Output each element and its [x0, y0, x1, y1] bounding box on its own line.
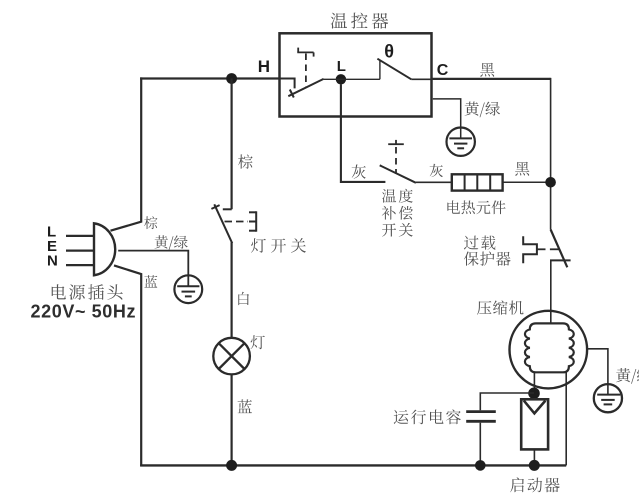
label 黄/绿 yellow-green (plug) [155, 235, 188, 250]
switch S1 lamp switch arm [211, 204, 232, 243]
label 220V~ 50Hz rating [31, 302, 137, 322]
resistor RH heating element body [452, 174, 503, 190]
overload F1 switch arm [551, 230, 568, 268]
compressor M1 housing circle [510, 311, 588, 389]
switch S3 theta switch arm [377, 59, 411, 80]
wire door switch to lamp [231, 242, 233, 338]
wire heater to right bus [503, 181, 551, 183]
label 过载 overload [464, 236, 496, 250]
wire plug earth (yellow/green) [118, 251, 188, 286]
node L terminal junction dot [336, 74, 346, 84]
label 温度 temperature [382, 189, 413, 203]
node junction bottom / lamp [226, 460, 237, 471]
label 温控器 thermostat [331, 13, 389, 29]
thermostat actuator dashed link [305, 54, 307, 88]
svg-text:220V~ 50Hz: 220V~ 50Hz [31, 302, 137, 322]
node junction right bus / heater [545, 177, 556, 188]
wire L terminal down to compensation switch [341, 84, 386, 182]
overload F1 link dashes [537, 248, 559, 250]
label 黑 black (heater) [515, 162, 529, 176]
overload F1 heater bracket [523, 236, 537, 263]
thermostat U1 enclosure box [280, 33, 432, 116]
wire compensation switch to heater [416, 181, 452, 183]
wire lamp to bottom bus [231, 374, 233, 465]
label 保护器 protector [464, 251, 511, 265]
wire compressor body to earth [587, 349, 608, 395]
label 黑 black (top) [480, 63, 494, 77]
capacitor CR run capacitor plates [466, 412, 496, 422]
ground G1 protective earth at plug [174, 275, 202, 303]
label 灯开关 lamp switch [251, 238, 306, 253]
label 蓝 blue (plug) [144, 275, 157, 287]
label 棕 brown (lamp branch) [238, 154, 253, 168]
node junction start terminal [528, 388, 540, 400]
ground G3 protective earth at compressor [594, 384, 622, 412]
label N pin [47, 253, 58, 270]
wire starter to bottom bus [533, 449, 535, 465]
switch S1 lamp door switch fixed contact [223, 208, 232, 210]
label H terminal [258, 57, 270, 76]
wire bottom neutral bus [140, 464, 566, 466]
wire blue from plug to bottom bus [114, 265, 141, 466]
label theta symbol [384, 42, 394, 62]
ground G2 protective earth at thermostat [447, 128, 475, 156]
wire winding run terminal to bottom bus [565, 372, 567, 465]
label 压缩机 compressor [477, 300, 524, 314]
label C terminal [437, 62, 449, 79]
wire brown vertical from plug to top bus [111, 77, 142, 230]
plug P1 pin L [66, 235, 94, 237]
node junction top bus / lamp branch [226, 73, 237, 84]
label 开关 switch [382, 223, 413, 237]
switch S4 compensation switch arm [380, 165, 416, 183]
label L pin [47, 223, 56, 240]
label 蓝 blue (below lamp) [238, 399, 252, 413]
label 电热元件 heating element [447, 200, 505, 214]
switch S3 theta contact stub [379, 60, 381, 79]
wire theta arm to C terminal [411, 78, 431, 80]
node junction bottom / starter [529, 460, 540, 471]
plug P1 body (power plug) [94, 223, 115, 275]
starter K1 body [521, 399, 548, 449]
svg-text:L: L [337, 58, 346, 75]
compensation switch dashed link [395, 147, 397, 174]
wire thermostat body to earth [433, 99, 461, 138]
thermostat bellows actuator T-bar [297, 48, 313, 57]
wire H terminal stub inside [280, 79, 295, 89]
label E pin [47, 238, 57, 255]
svg-text:H: H [258, 57, 270, 76]
label 黄/绿 yellow-green (compressor) [616, 368, 639, 384]
wire start terminal to capacitor [480, 393, 534, 410]
wire lamp branch down to door switch [231, 79, 233, 210]
wire right bus down to overload [550, 78, 552, 230]
node junction bottom / capacitor [475, 460, 486, 471]
label 白 white wire [238, 292, 249, 305]
switch S2 thermostat main contact arm [288, 79, 323, 98]
wire capacitor to bottom bus [479, 423, 481, 466]
wire winding start terminal down [533, 372, 535, 399]
label 黄/绿 yellow-green (thermostat) [465, 102, 500, 118]
compressor M1 motor winding coil [525, 323, 574, 372]
switch S1 mechanical link dashes [225, 221, 249, 223]
label 电源插头 power plug [52, 284, 123, 300]
plug P1 pin E [66, 250, 94, 252]
label 灯 lamp [251, 335, 265, 349]
svg-text:N: N [47, 253, 58, 270]
label 运行电容 run capacitor [394, 410, 461, 425]
compensation switch actuator T-bar [388, 140, 404, 144]
plug P1 pin N [66, 264, 94, 266]
label 棕 brown (plug top wire) [144, 216, 157, 229]
svg-text:θ: θ [384, 42, 394, 62]
label L terminal [337, 58, 346, 75]
lamp EL1 bulb symbol [213, 338, 250, 375]
label 补偿 compensation [382, 206, 413, 220]
label 启动器 starter [510, 477, 560, 492]
overload F1 fixed contact bar [550, 259, 571, 261]
svg-text:C: C [437, 62, 449, 79]
switch S1 door actuator bracket [249, 211, 256, 231]
wire overload to compressor [550, 260, 552, 323]
label 灰 grey (left) [352, 165, 366, 179]
wire C terminal to right bus corner [432, 78, 551, 80]
wire top H bus (junction to thermostat) [140, 77, 280, 79]
wire L to theta switch [324, 78, 380, 80]
label 灰 grey (right) [430, 164, 443, 177]
